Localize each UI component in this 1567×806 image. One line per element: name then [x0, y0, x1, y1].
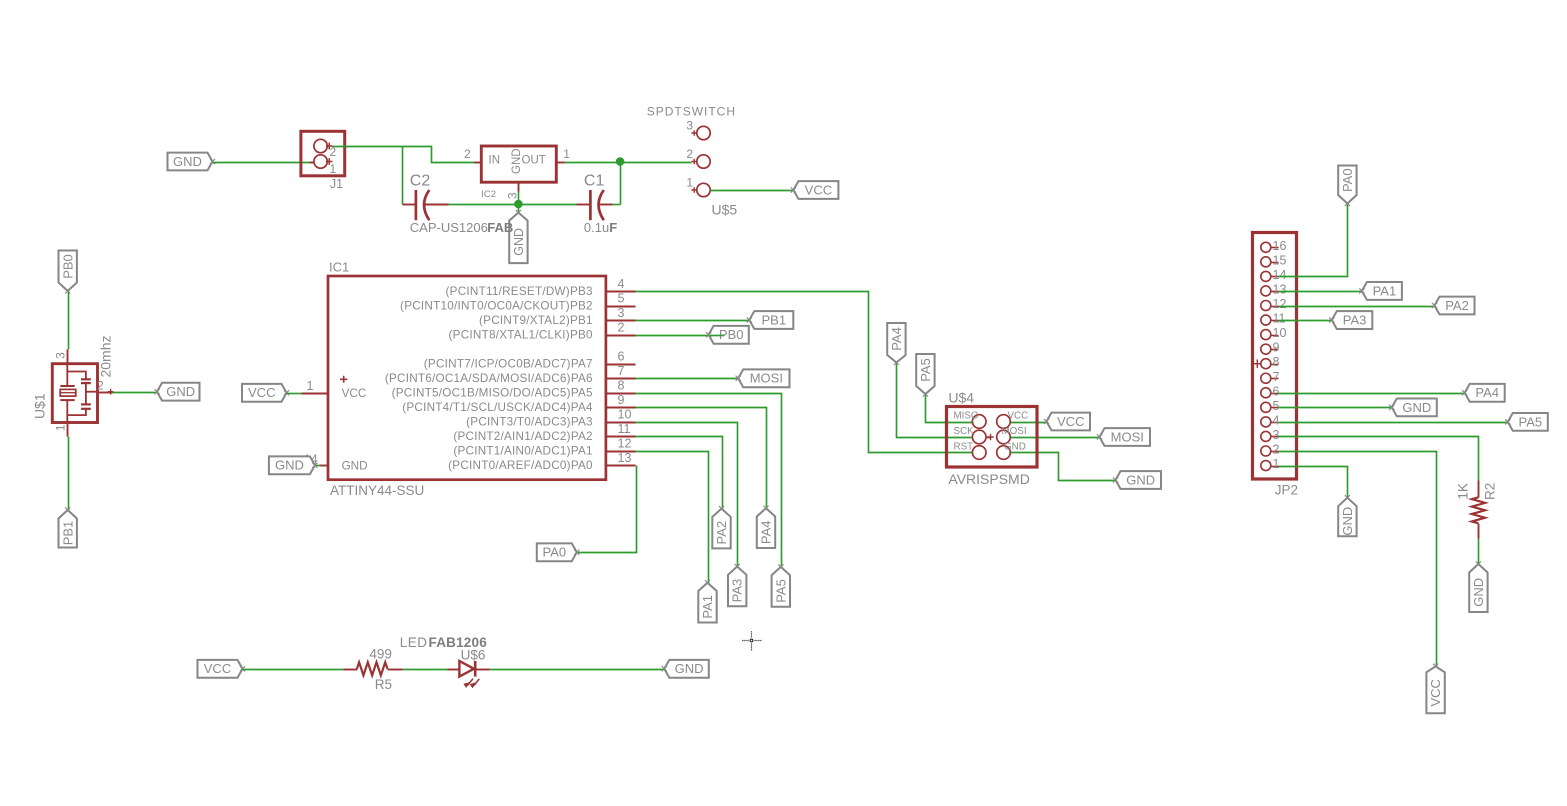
label C1: [584, 173, 605, 190]
svg-text:PB1: PB1: [60, 521, 75, 546]
junction: [616, 157, 625, 166]
svg-text:MOSI: MOSI: [1111, 429, 1144, 444]
svg-text:5: 5: [1273, 399, 1280, 413]
net flag PA3: [728, 564, 746, 606]
svg-text:R5: R5: [375, 677, 392, 692]
net flag PA3: [1329, 311, 1372, 329]
svg-text:PB0: PB0: [60, 254, 75, 279]
net flag PA4: [1462, 384, 1505, 402]
regulator IC2 body: [481, 146, 556, 182]
switch U$5 pin 3: [686, 119, 710, 140]
svg-text:(PCINT4/T1/SCL/USCK/ADC4)PA4: (PCINT4/T1/SCL/USCK/ADC4)PA4: [402, 401, 593, 414]
svg-text:SPDTSWITCH: SPDTSWITCH: [647, 105, 736, 119]
wire: [1279, 393, 1466, 395]
svg-text:20mhz: 20mhz: [97, 335, 113, 377]
net flag GND: [269, 456, 318, 474]
wire: [1011, 422, 1047, 424]
label LED: [400, 635, 428, 650]
svg-text:IC2: IC2: [481, 189, 496, 200]
pin name GND: [342, 460, 368, 473]
svg-text:U$4: U$4: [948, 390, 974, 406]
net flag MOSI: [736, 369, 790, 387]
wire: [1011, 437, 1101, 439]
svg-text:VCC: VCC: [805, 182, 832, 197]
wire: [711, 190, 794, 192]
label U$6: [461, 647, 486, 662]
svg-text:GND: GND: [1471, 578, 1486, 607]
svg-text:GND: GND: [1004, 441, 1026, 452]
svg-text:13: 13: [1273, 282, 1287, 296]
svg-text:GND: GND: [1340, 507, 1355, 536]
pin 13 JP2: [1261, 282, 1287, 296]
label R2: [1482, 483, 1497, 500]
wire: [1279, 320, 1333, 322]
wire: [1279, 452, 1437, 667]
wire: [710, 335, 725, 337]
wire: [333, 147, 475, 163]
svg-text:2: 2: [686, 147, 693, 161]
label JP2: [1275, 483, 1298, 498]
svg-text:1: 1: [686, 176, 693, 190]
svg-text:PA5: PA5: [918, 358, 933, 382]
svg-text:PA2: PA2: [1445, 298, 1469, 313]
svg-text:PA4: PA4: [889, 327, 904, 351]
svg-text:7: 7: [618, 364, 625, 378]
net flag PA1: [698, 580, 716, 622]
switch U$5 pin 2: [686, 147, 710, 168]
wire: [1011, 453, 1117, 481]
svg-text:GND: GND: [173, 154, 202, 169]
svg-text:F: F: [609, 220, 617, 235]
wire: [402, 147, 404, 205]
net flag PA1: [1359, 282, 1402, 300]
svg-text:R2: R2: [1482, 483, 1497, 500]
svg-text:GND: GND: [275, 458, 304, 473]
svg-text:GND: GND: [1126, 472, 1155, 487]
svg-text:2: 2: [464, 147, 471, 161]
wire: [518, 205, 520, 214]
svg-text:8: 8: [618, 379, 625, 393]
net flag PA5: [916, 354, 934, 397]
svg-text:(PCINT6/OC1A/SDA/MOSI/ADC6)PA6: (PCINT6/OC1A/SDA/MOSI/ADC6)PA6: [385, 372, 593, 385]
net flag PA5: [1505, 413, 1548, 431]
net flag VCC: [198, 660, 246, 678]
pin MISO U$4: [954, 410, 987, 428]
svg-text:LED: LED: [400, 635, 428, 650]
svg-text:VCC: VCC: [204, 661, 231, 676]
svg-text:1K: 1K: [1456, 483, 1471, 500]
svg-text:J1: J1: [330, 177, 343, 191]
svg-text:GND: GND: [166, 384, 195, 399]
wire: [926, 395, 973, 423]
pin 9 JP2: [1261, 341, 1280, 355]
svg-text:12: 12: [1273, 297, 1287, 311]
svg-text:(PCINT9/XTAL2)PB1: (PCINT9/XTAL2)PB1: [479, 314, 593, 327]
svg-text:AVRISPSMD: AVRISPSMD: [948, 471, 1029, 487]
svg-text:VCC: VCC: [1008, 410, 1029, 421]
pin 4 IC1: [446, 277, 636, 298]
svg-text:(PCINT8/XTAL1/CLKI)PB0: (PCINT8/XTAL1/CLKI)PB0: [449, 329, 594, 342]
svg-text:U$6: U$6: [461, 647, 486, 662]
svg-text:11: 11: [618, 422, 631, 436]
svg-text:(PCINT11/RESET/DW)PB3: (PCINT11/RESET/DW)PB3: [446, 285, 593, 298]
net flag GND: [509, 210, 527, 263]
value C1: [584, 220, 617, 235]
svg-text:1: 1: [53, 424, 67, 431]
svg-text:(PCINT2/AIN1/ADC2)PA2: (PCINT2/AIN1/ADC2)PA2: [453, 430, 592, 443]
wire: [636, 437, 723, 510]
svg-text:SCK: SCK: [954, 426, 975, 437]
pin 5 JP2: [1261, 399, 1280, 413]
svg-text:OUT: OUT: [522, 155, 546, 167]
svg-text:VCC: VCC: [248, 385, 275, 400]
svg-text:PA5: PA5: [1518, 414, 1542, 429]
connector J1: [301, 131, 345, 176]
pin 13 IC1: [448, 451, 635, 472]
svg-text:3: 3: [618, 306, 625, 320]
svg-text:PA1: PA1: [700, 595, 715, 619]
wire: [113, 392, 158, 394]
svg-text:MISO: MISO: [954, 410, 979, 421]
pin 12 JP2: [1261, 297, 1287, 311]
cursor crosshair: [742, 631, 762, 651]
svg-text:3: 3: [506, 192, 520, 199]
pin MOSI U$4: [997, 426, 1027, 444]
svg-text:6: 6: [1273, 384, 1280, 398]
net flag PA4: [887, 323, 905, 365]
svg-text:PA1: PA1: [1373, 283, 1397, 298]
net flag VCC: [242, 384, 289, 402]
wire: [449, 204, 577, 206]
svg-text:1: 1: [330, 162, 337, 176]
svg-text:9: 9: [618, 393, 625, 407]
svg-text:C1: C1: [584, 173, 605, 190]
value 1K: [1456, 483, 1471, 500]
net flag GND: [1389, 398, 1437, 416]
svg-text:8: 8: [1273, 355, 1280, 369]
wire: [1279, 437, 1479, 481]
wire: [636, 320, 750, 322]
svg-text:PA3: PA3: [730, 579, 745, 603]
pin 14 JP2: [1261, 268, 1287, 282]
pin stub J1 pin1: [310, 158, 333, 165]
value C2: [410, 220, 514, 235]
svg-text:FAB: FAB: [487, 220, 513, 235]
net flag PA2: [1432, 297, 1475, 315]
svg-text:2: 2: [97, 378, 104, 392]
svg-text:4: 4: [618, 277, 625, 291]
pin 7 JP2: [1261, 370, 1280, 384]
svg-text:JP2: JP2: [1275, 483, 1298, 498]
svg-text:(PCINT1/AIN0/ADC1)PA1: (PCINT1/AIN0/ADC1)PA1: [453, 445, 592, 458]
svg-text:2: 2: [618, 321, 625, 335]
svg-text:C2: C2: [410, 173, 431, 190]
svg-text:16: 16: [1273, 239, 1287, 253]
IC U1 ATTINY44 body: [328, 276, 606, 480]
net flag MOSI: [1097, 428, 1150, 446]
wire: [68, 292, 70, 350]
net flag PB1: [747, 311, 794, 329]
pin name VCC: [342, 387, 367, 400]
value FAB1206: [429, 635, 488, 650]
pin 3 IC2: [506, 183, 520, 199]
pin 4 JP2: [1261, 413, 1280, 427]
svg-text:3: 3: [686, 119, 693, 133]
wire: [1478, 539, 1480, 565]
svg-text:10: 10: [618, 408, 632, 422]
svg-text:(PCINT3/T0/ADC3)PA3: (PCINT3/T0/ADC3)PA3: [466, 416, 593, 429]
svg-text:1: 1: [563, 147, 570, 161]
wire: [316, 465, 321, 467]
svg-text:U$1: U$1: [31, 393, 47, 419]
svg-text:4: 4: [1273, 413, 1280, 427]
net flag PA0: [537, 543, 580, 561]
wire: [620, 163, 622, 205]
net flag GND: [662, 660, 709, 678]
svg-text:499: 499: [369, 647, 392, 662]
pin 3 JP2: [1261, 428, 1280, 442]
svg-text:14: 14: [1273, 268, 1287, 282]
svg-text:5: 5: [618, 291, 625, 305]
net flag GND: [168, 153, 216, 171]
resistor R2: [1472, 481, 1485, 539]
svg-text:RST: RST: [954, 441, 974, 452]
label U$5: [712, 202, 738, 218]
wire: [1279, 467, 1348, 499]
pin 1 IC1: [302, 379, 329, 393]
pin 2 IC1: [449, 321, 636, 342]
svg-text:3: 3: [1273, 428, 1280, 442]
pin 8 JP2: [1261, 355, 1280, 369]
value 499: [369, 647, 392, 662]
svg-text:10: 10: [1273, 326, 1287, 340]
svg-text:IN: IN: [489, 155, 501, 167]
net flag GND: [1338, 495, 1356, 536]
wire: [68, 437, 70, 511]
net flag GND: [1469, 561, 1487, 612]
VCC marker: [340, 376, 347, 383]
label C2: [410, 173, 431, 190]
net flag PA2: [712, 506, 730, 548]
pin 16 JP2: [1261, 239, 1287, 253]
svg-text:GND: GND: [342, 460, 368, 473]
svg-text:1: 1: [1273, 457, 1280, 471]
wire: [578, 466, 637, 553]
wire: [636, 394, 782, 568]
wire: [490, 669, 665, 671]
wire: [636, 378, 739, 380]
label ATTINY44-SSU: [330, 483, 424, 498]
pin 3 U$1: [53, 350, 67, 365]
pin 14 IC1: [304, 453, 329, 467]
svg-text:PA4: PA4: [759, 520, 774, 544]
svg-text:MOSI: MOSI: [750, 371, 783, 386]
svg-text:GND: GND: [1402, 400, 1431, 415]
connector JP2 body: [1253, 233, 1297, 480]
net flag PA0: [1338, 166, 1356, 207]
svg-text:(PCINT7/ICP/OC0B/ADC7)PA7: (PCINT7/ICP/OC0B/ADC7)PA7: [424, 358, 593, 371]
wire: [243, 669, 344, 671]
label IC1: [329, 260, 349, 275]
pin 1 JP2: [1261, 457, 1280, 471]
pin 5 IC1: [400, 291, 635, 312]
svg-text:MOSI: MOSI: [1002, 426, 1027, 437]
svg-text:0.1u: 0.1u: [584, 220, 609, 235]
svg-text:12: 12: [618, 437, 632, 451]
wire: [1279, 306, 1435, 308]
net flag GND: [154, 383, 199, 401]
svg-text:PA4: PA4: [1475, 385, 1499, 400]
wire: [636, 292, 973, 453]
pin 2 JP2: [1261, 443, 1280, 457]
pin 2 IC2: [464, 147, 482, 162]
wire: [636, 423, 738, 567]
svg-text:PA2: PA2: [714, 521, 729, 545]
pin SCK U$4: [954, 426, 994, 444]
resonator U$1 body: [52, 364, 97, 423]
pin 9 IC1: [402, 393, 635, 414]
net flag PB0: [706, 326, 749, 344]
pin 7 IC1: [385, 364, 636, 385]
label SPDTSWITCH: [647, 105, 736, 119]
svg-text:VCC: VCC: [342, 387, 367, 400]
svg-text:PA5: PA5: [773, 579, 788, 603]
net flag PA5: [772, 564, 790, 606]
wire: [403, 669, 448, 671]
svg-text:2: 2: [1273, 443, 1280, 457]
wire: [1279, 205, 1348, 277]
label U$4: [948, 390, 974, 406]
svg-text:PA0: PA0: [542, 545, 566, 560]
net flag PA4: [757, 506, 775, 548]
pin RST U$4: [954, 441, 987, 459]
wire: [897, 363, 973, 438]
pin 3 IC1: [479, 306, 635, 327]
svg-text:PA0: PA0: [1340, 168, 1355, 192]
pin 11 JP2: [1261, 312, 1286, 326]
net flag VCC: [1426, 664, 1444, 714]
wire: [565, 162, 692, 164]
label U$1: [31, 393, 47, 419]
value 20mhz: [97, 335, 113, 377]
LED U$6: [448, 661, 490, 688]
svg-text:15: 15: [1273, 253, 1287, 267]
ISP header U$4 body: [947, 407, 1038, 468]
wire: [1279, 291, 1363, 293]
label IC2: [481, 189, 496, 200]
pin VCC U$4: [997, 410, 1028, 428]
resistor R5: [344, 662, 403, 675]
wire: [1279, 407, 1393, 409]
switch U$5 pin 1: [686, 176, 710, 197]
svg-text:VCC: VCC: [1057, 414, 1084, 429]
svg-text:(PCINT10/INT0/OC0A/CKOUT)PB2: (PCINT10/INT0/OC0A/CKOUT)PB2: [400, 299, 593, 312]
pin 6 JP2: [1261, 384, 1280, 398]
svg-text:GND: GND: [675, 661, 704, 676]
svg-text:U$5: U$5: [712, 202, 738, 218]
net flag PB0: [59, 251, 77, 294]
net flag PB1: [59, 507, 77, 547]
wire: [636, 335, 710, 337]
label J1: [330, 177, 343, 191]
capacitor C1: [577, 190, 613, 220]
svg-text:PA3: PA3: [1343, 312, 1367, 327]
pin 11 IC1: [453, 422, 635, 443]
net flag VCC: [1044, 413, 1090, 431]
svg-text:11: 11: [1273, 312, 1286, 326]
pin GND U$4: [997, 441, 1026, 459]
wire: [287, 393, 302, 395]
svg-text:ATTINY44-SSU: ATTINY44-SSU: [330, 483, 424, 498]
svg-text:VCC: VCC: [1428, 679, 1443, 706]
wire: [613, 204, 621, 206]
capacitor C2: [403, 190, 449, 220]
origin cross JP2: [1253, 360, 1261, 368]
wire: [213, 162, 310, 164]
net flag GND: [1113, 471, 1161, 489]
svg-text:(PCINT5/OC1B/MISO/DO/ADC5)PA5: (PCINT5/OC1B/MISO/DO/ADC5)PA5: [392, 387, 593, 400]
svg-text:13: 13: [618, 451, 632, 465]
pin 6 IC1: [424, 350, 636, 371]
svg-text:3: 3: [53, 352, 67, 359]
svg-text:9: 9: [1273, 341, 1280, 355]
svg-text:(PCINT0/AREF/ADC0)PA0: (PCINT0/AREF/ADC0)PA0: [448, 459, 593, 472]
svg-text:IC1: IC1: [329, 260, 349, 275]
svg-text:1: 1: [307, 379, 314, 393]
net flag VCC: [791, 181, 839, 199]
svg-text:CAP-US1206: CAP-US1206: [410, 220, 488, 235]
pin 15 JP2: [1261, 253, 1287, 267]
pin 2 U$1: [97, 378, 113, 394]
svg-text:6: 6: [618, 350, 625, 364]
svg-text:GND: GND: [512, 228, 526, 256]
wire: [1279, 422, 1509, 424]
junction: [514, 200, 523, 209]
pin 8 IC1: [392, 379, 636, 400]
pin 10 JP2: [1261, 326, 1287, 340]
svg-text:7: 7: [1273, 370, 1280, 384]
pin 1 IC2: [557, 147, 571, 162]
pin 1 U$1: [53, 423, 67, 437]
wire: [518, 192, 520, 205]
label AVRISPSMD: [948, 471, 1029, 487]
label R5: [375, 677, 392, 692]
wire: [636, 408, 767, 509]
svg-text:PB1: PB1: [762, 312, 787, 327]
wire: [636, 452, 709, 584]
pin 12 IC1: [453, 437, 635, 458]
pin 10 IC1: [466, 408, 635, 429]
